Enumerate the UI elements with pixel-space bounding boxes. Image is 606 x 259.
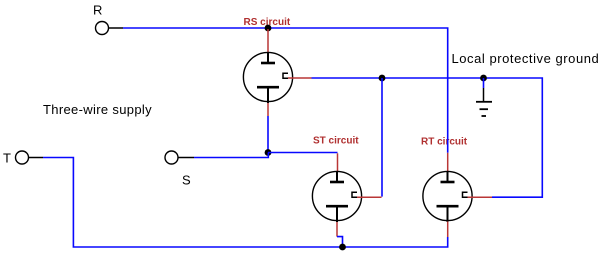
tube U3 cathode bar xyxy=(437,205,459,208)
wire: red from RS side bracket to ground rail xyxy=(288,77,312,79)
wire: red from ST side bracket to blue vertical xyxy=(357,196,382,198)
wire: red from blue rail to RT side bracket xyxy=(468,196,493,198)
wire: red feed ST tube top xyxy=(337,153,339,172)
ground: earth pin black xyxy=(483,88,485,101)
tube U2 (ST) envelope xyxy=(312,171,361,220)
ground: earth bar 3 xyxy=(482,115,487,117)
wire: red feed RT tube top xyxy=(447,153,449,172)
wire: ST tube bottom red segment xyxy=(336,222,338,237)
wire: ground rail blue, right then down then left to RT bracket xyxy=(312,78,543,197)
tube U2 top pin xyxy=(336,171,338,182)
tube U2 cathode bar xyxy=(326,205,348,208)
tube U1 anode bar xyxy=(261,62,275,65)
svg-text:Local protective ground: Local protective ground xyxy=(452,51,600,66)
node: junction ground rail / earth xyxy=(480,75,487,82)
tube U1 side electrode bracket xyxy=(283,73,288,78)
terminal T xyxy=(16,151,29,164)
tube U3 side electrode bracket xyxy=(463,192,468,197)
wire: R terminal stub (black) xyxy=(109,27,123,29)
tube U2 bottom pin xyxy=(336,206,338,222)
wire: RT tube bottom red segment xyxy=(447,222,449,238)
wire: R rail blue, right then down to RT tube xyxy=(123,28,448,153)
wire: S rail blue junction to ST tube feed corner xyxy=(268,152,338,154)
tube U1 top pin xyxy=(267,52,269,63)
tube U3 (RT) envelope xyxy=(423,171,472,220)
node: junction S rail / RS tube xyxy=(265,149,272,156)
wire: ST bottom blue jog to bottom rail xyxy=(337,237,343,247)
tube U3 bottom pin xyxy=(447,206,449,222)
svg-text:ST circuit: ST circuit xyxy=(313,136,359,147)
ground: earth bar 2 xyxy=(480,108,489,110)
node: junction R rail / RS tube xyxy=(265,25,272,32)
terminal R xyxy=(96,22,109,35)
wire: T rail blue, down, bottom rail, up to RT tube xyxy=(43,158,448,248)
svg-text:Three-wire supply: Three-wire supply xyxy=(43,102,152,117)
node: junction ground rail / ST branch xyxy=(379,75,386,82)
tube U2 side electrode bracket xyxy=(352,192,357,197)
wire: T terminal stub (black) xyxy=(29,157,43,159)
tube U1 (RS) envelope xyxy=(243,52,292,101)
tube U1 cathode bar xyxy=(257,86,279,89)
terminal S xyxy=(165,151,178,164)
wire: blue stub down from ground junction xyxy=(483,78,485,88)
svg-text:T: T xyxy=(3,150,11,165)
wire: red feed RS tube top xyxy=(267,29,269,53)
wire: blue vertical down to ST bracket level xyxy=(381,78,383,197)
tube U1 bottom pin xyxy=(267,87,269,103)
node: junction bottom rail / ST tube xyxy=(339,244,346,251)
tube U3 anode bar xyxy=(441,181,455,184)
svg-text:R: R xyxy=(93,2,102,17)
wire: RS tube bottom blue segment down to S rail xyxy=(267,116,269,153)
ground: earth bar 1 xyxy=(476,101,492,103)
wire: S terminal stub (black) xyxy=(178,157,194,159)
tube U2 anode bar xyxy=(330,181,344,184)
svg-text:S: S xyxy=(182,173,191,188)
wire: S rail blue with jog up to junction xyxy=(194,153,268,158)
svg-text:RT circuit: RT circuit xyxy=(421,137,468,148)
tube U3 top pin xyxy=(447,171,449,182)
wire: RS tube bottom red segment xyxy=(267,103,269,116)
